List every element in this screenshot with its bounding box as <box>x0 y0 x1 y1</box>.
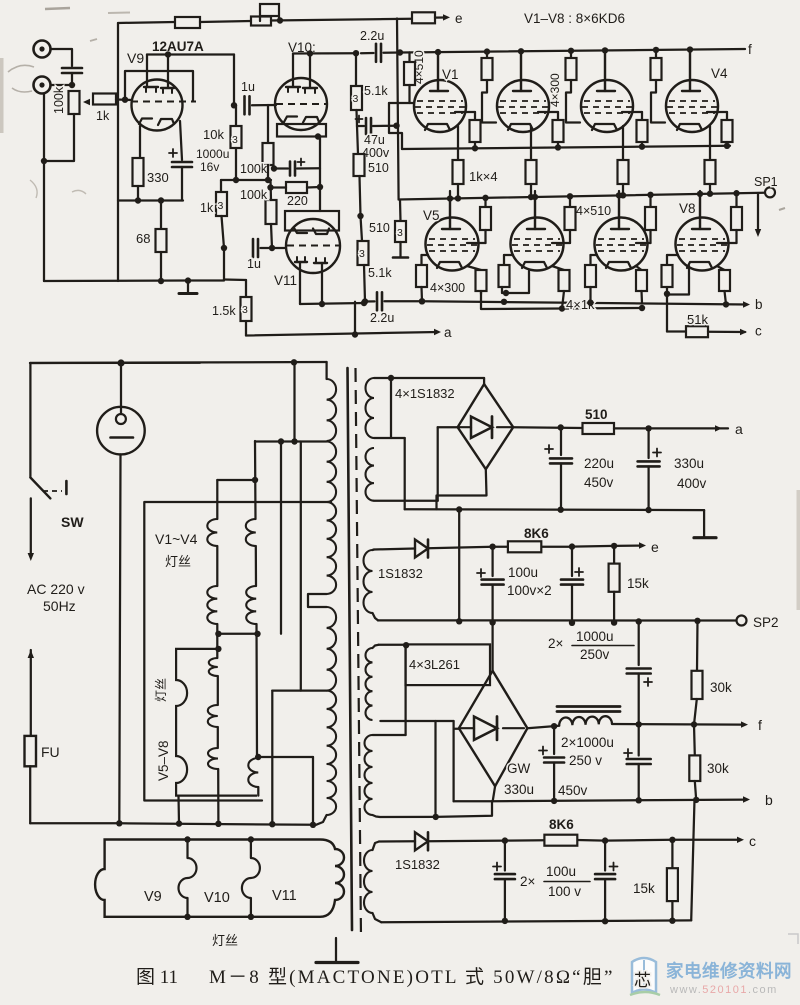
resistor 1k cathode V2 <box>526 126 537 200</box>
input jack J1 (top) <box>34 41 51 58</box>
node b (arrow) <box>743 297 763 312</box>
capacitor 220u 450v <box>545 428 572 510</box>
winding w4 <box>365 735 373 815</box>
wire b-rail left <box>385 298 426 304</box>
svg-text:4×510: 4×510 <box>576 204 611 218</box>
svg-text:SW: SW <box>61 514 84 530</box>
fuse FU <box>25 736 60 766</box>
wire bridge2 top to SP2 <box>491 623 493 671</box>
wire SP1 feedback stub <box>755 193 761 237</box>
wire heater link y634 <box>215 631 257 637</box>
svg-text:510: 510 <box>369 221 390 235</box>
tube V10 label <box>288 40 316 55</box>
label 4x300 (top, rotated) <box>548 73 562 107</box>
resistor 15k (e) <box>609 546 649 623</box>
svg-text:AC 220 v: AC 220 v <box>27 581 85 597</box>
svg-text:10k: 10k <box>203 127 224 142</box>
svg-text:f: f <box>758 717 762 733</box>
svg-text:100k: 100k <box>240 188 268 202</box>
svg-text:e: e <box>455 11 463 26</box>
svg-text:330: 330 <box>147 170 169 185</box>
tube V9 label <box>127 50 144 66</box>
svg-text:V1: V1 <box>442 67 459 82</box>
wire w3 top lead <box>373 642 410 648</box>
wire c bottom rail <box>381 918 691 925</box>
capacitor 1000u 250v (upper) <box>627 622 652 725</box>
svg-text:100k: 100k <box>240 162 268 176</box>
capacitor 1000u 16v (V9 cathode) <box>169 149 192 201</box>
label 330u 400v <box>674 456 707 491</box>
watermark text <box>666 934 798 996</box>
wire w5 top lead <box>373 841 416 850</box>
svg-text:V5: V5 <box>423 208 440 223</box>
wire w4 bottom lead <box>373 815 436 817</box>
label 4x1k <box>566 297 595 312</box>
resistor 51k <box>686 312 708 337</box>
node e (top arrow) <box>435 11 463 26</box>
svg-text:50Hz: 50Hz <box>43 598 76 614</box>
svg-text:b: b <box>755 297 763 312</box>
tube V3 <box>581 53 633 132</box>
wire divider node y180 <box>221 177 271 183</box>
capacitor input (jack1-jack2) <box>62 68 82 85</box>
wire 2.2u right to f-rail <box>384 49 404 55</box>
wire 510 to junction <box>357 176 363 219</box>
resistor cathode V7 <box>636 266 647 291</box>
resistor 100k (lower) <box>240 188 277 224</box>
wire V10 plate rail <box>293 50 359 57</box>
ground <box>179 281 197 294</box>
svg-text:2.2u: 2.2u <box>360 29 384 43</box>
resistor 15k (c) <box>633 840 678 921</box>
terminal SP1 <box>754 175 778 197</box>
node b (psu arrow) <box>743 792 773 808</box>
svg-text:f: f <box>748 42 752 57</box>
rectifier bridge 4x1S1832 <box>458 384 514 469</box>
scan artifacts (edge smudges) <box>0 8 800 610</box>
svg-text:1.5k: 1.5k <box>212 304 236 318</box>
svg-text:1k: 1k <box>200 201 214 215</box>
wire heater feed x294 <box>291 359 297 441</box>
wire w1 center tap <box>374 378 405 509</box>
wire to node c <box>708 331 745 334</box>
wire V4 plate lead <box>687 46 693 91</box>
wire a line <box>513 424 582 430</box>
wire w3/w4 link <box>404 646 406 735</box>
wire w3-w4 series link <box>433 721 439 820</box>
svg-text:4×1S1832: 4×1S1832 <box>395 386 455 401</box>
label heater (bottom) <box>212 933 238 948</box>
heater box V9 V10 V11 <box>95 840 344 917</box>
svg-text:15k: 15k <box>627 576 649 591</box>
wire V9 plate line <box>147 51 234 57</box>
tube V1 label <box>442 67 459 82</box>
wire b junction jog <box>436 801 492 817</box>
caption figure 11 <box>136 966 615 988</box>
capacitor 330u 400v <box>638 428 661 510</box>
wire w3 bottom lead <box>380 720 453 722</box>
label 12AU7A <box>152 39 204 54</box>
wire return x459 <box>458 510 460 622</box>
ground (psu A) <box>694 510 716 538</box>
resistor 30k (1) <box>692 621 733 725</box>
winding w2 <box>364 550 373 613</box>
wire V9 cathode right to bypass cap <box>180 121 182 160</box>
tube V10 <box>275 54 327 131</box>
svg-text:b: b <box>765 792 773 808</box>
capacitor 100u (c2) <box>595 841 617 922</box>
wire jack1 to coupling cap <box>51 49 73 66</box>
label 1000u 16v (V9) <box>196 147 229 174</box>
wire V5 grid-R bottom <box>419 287 425 304</box>
svg-text:30k: 30k <box>707 761 729 776</box>
svg-text:220u: 220u <box>584 456 614 471</box>
resistor 510 (driver load) <box>354 126 389 176</box>
svg-text:SP2: SP2 <box>753 615 779 630</box>
wire primary tap y690 <box>272 689 326 691</box>
svg-text:2×1000u: 2×1000u <box>561 735 614 750</box>
svg-text:100 v: 100 v <box>548 884 581 899</box>
wire V5 plate lead <box>447 195 453 229</box>
winding divider V9/V10 <box>179 836 197 920</box>
svg-text:5.1k: 5.1k <box>368 266 392 280</box>
resistor 220 <box>267 182 323 208</box>
capacitor 220-bypass with + <box>271 159 320 176</box>
resistor 5.1k 3W (lower) <box>358 216 393 280</box>
tube V4 <box>666 53 718 132</box>
wire V5 cathode to 4x1k rail <box>480 291 482 294</box>
svg-text:3: 3 <box>232 134 238 146</box>
svg-text:4×3L261: 4×3L261 <box>409 657 460 672</box>
svg-text:1000u: 1000u <box>196 147 229 161</box>
transformer primary winding <box>30 362 336 825</box>
wire input ground vertical <box>43 94 45 282</box>
choke filter <box>557 707 620 726</box>
resistor 1k cathode V4 <box>705 126 716 197</box>
wire b junction <box>454 800 493 802</box>
tube V4 label <box>711 66 728 81</box>
svg-text:V9: V9 <box>144 889 162 905</box>
wire V3 plate lead <box>602 47 608 91</box>
wire a-line <box>246 331 438 337</box>
svg-text:250v: 250v <box>580 647 610 662</box>
wire w1 top lead <box>374 375 484 381</box>
svg-text:e: e <box>651 539 659 555</box>
wire 10k bottom <box>235 148 237 180</box>
wire V8 grid bracket <box>664 266 689 297</box>
resistor screen V3 <box>622 112 648 150</box>
tube V8 <box>676 191 729 271</box>
wire 68 bottom <box>160 252 162 281</box>
wire mains left down <box>29 363 31 478</box>
svg-text:47u: 47u <box>364 133 385 147</box>
wire lamp bottom <box>119 454 120 823</box>
wire grid rail (top row) <box>402 146 730 149</box>
svg-text:15k: 15k <box>633 881 655 896</box>
tube V7 <box>595 191 648 271</box>
capacitor 2.2u (top coupling) <box>360 29 384 62</box>
svg-text:68: 68 <box>136 231 150 246</box>
diode 1S1832 (c) <box>395 832 440 872</box>
resistor screen V1 <box>455 112 481 151</box>
label 2x1000u 250v 450v <box>558 735 614 798</box>
svg-text:8K6: 8K6 <box>524 526 549 541</box>
resistor screen V8 <box>717 190 742 243</box>
capacitor 1u (to V10) <box>241 80 255 114</box>
wire V9 cathode node rail <box>118 197 183 203</box>
wire V8 cathode to b rail <box>725 291 727 304</box>
svg-text:GW: GW <box>507 761 531 776</box>
svg-text:1u: 1u <box>247 257 261 271</box>
resistor 1k cathode V1 <box>453 126 464 202</box>
resistor 510 (a supply) <box>583 407 615 434</box>
wire f line <box>612 721 741 728</box>
wire top rail to e-resistor <box>271 19 412 21</box>
label 4x300 (bottom row) <box>430 281 465 295</box>
resistor 1.5k 3W <box>212 248 252 321</box>
resistor screen V4 <box>707 112 733 149</box>
wire top rail mid <box>200 21 251 22</box>
svg-text:灯丝: 灯丝 <box>154 678 168 702</box>
resistor 30k (2) <box>689 725 729 800</box>
resistor screen V2 <box>538 112 564 151</box>
wire left feedback vertical <box>117 23 119 281</box>
resistor 4x300 (V3 grid feed) <box>566 48 581 123</box>
label 1k x4 <box>469 169 498 184</box>
resistor R-e (top) <box>412 12 435 23</box>
wire c rail up to b <box>691 800 694 921</box>
wire 5.1k to 47u node <box>355 110 358 126</box>
rectifier bridge 4x3L261 <box>459 671 528 786</box>
resistor 1k (grid stopper V9) <box>93 94 116 124</box>
winding V1-V4 heater A <box>207 477 258 658</box>
svg-text:M－8 型(MACTONE)OTL 式 50W/8Ω“胆”: M－8 型(MACTONE)OTL 式 50W/8Ω“胆” <box>209 966 615 988</box>
resistor 4x510 (V1 screen feed) <box>404 52 415 103</box>
svg-text:100v×2: 100v×2 <box>507 583 552 598</box>
label 2x 1000u/250v (upper) <box>548 629 634 662</box>
svg-text:510: 510 <box>368 161 389 175</box>
resistor 510 3W (below SP1 rail) <box>369 200 406 242</box>
wire V7 cathode to rail <box>640 291 643 303</box>
cathode box V11 <box>285 211 339 231</box>
wire V8 plate lead <box>697 191 703 229</box>
svg-text:FU: FU <box>41 744 60 760</box>
label 4x1S1832 <box>395 386 455 401</box>
svg-text:16v: 16v <box>200 160 219 174</box>
capacitor GW 330u 450v <box>539 726 564 801</box>
wire e/B+ vertical <box>393 19 399 200</box>
label AC220v 50Hz <box>27 581 85 614</box>
svg-text:250 v: 250 v <box>569 753 602 768</box>
svg-text:450v: 450v <box>584 475 614 490</box>
svg-text:V9: V9 <box>127 50 144 66</box>
resistor cathode V6 <box>552 266 570 291</box>
capacitor 47u 400v <box>356 116 397 161</box>
svg-text:4×300: 4×300 <box>548 73 562 107</box>
svg-text:3: 3 <box>242 304 248 316</box>
wire node y180 to 1k3 <box>220 180 222 192</box>
resistor grid V7 <box>585 255 597 287</box>
wire w2 bottom lead <box>373 613 379 620</box>
wire heater link y757 <box>258 756 313 758</box>
heater box V1-V4 <box>144 502 331 801</box>
wire V9 grid box <box>125 71 193 102</box>
wire 5.1k2 bottom <box>362 265 368 305</box>
wire b-rail tap vertical <box>354 302 356 335</box>
resistor link above R-top-2 <box>260 4 283 24</box>
node e (psu arrow) <box>639 539 659 555</box>
svg-text:5.1k: 5.1k <box>364 84 388 98</box>
wire V9 cathode left <box>139 126 141 158</box>
svg-text:a: a <box>444 325 452 340</box>
svg-text:V1~V4: V1~V4 <box>155 531 198 547</box>
svg-text:12AU7A: 12AU7A <box>152 39 204 54</box>
resistor 8K6 (c) <box>544 817 577 846</box>
box 4x3L261 <box>406 644 491 685</box>
resistor screen V5 <box>467 195 491 243</box>
resistor 1k 3W (V11 grid) <box>200 192 227 216</box>
svg-text:450v: 450v <box>558 783 588 798</box>
resistor cathode V5 <box>467 266 487 291</box>
wire heater feed x300 <box>300 442 302 691</box>
winding divider V10/V11 <box>242 836 260 920</box>
svg-text:51k: 51k <box>687 312 708 327</box>
svg-text:510: 510 <box>585 407 608 422</box>
svg-text:家电维修资料网: 家电维修资料网 <box>666 961 792 981</box>
tube V11 label <box>274 273 297 288</box>
svg-text:V4: V4 <box>711 66 728 81</box>
svg-text:100k: 100k <box>52 86 66 114</box>
label 2x 100u/100v <box>520 864 590 899</box>
wire primary tap jog <box>308 594 327 607</box>
wire bridge1 bottom return <box>437 469 487 509</box>
node a (psu arrow) <box>715 421 743 437</box>
node c (arrow) <box>740 324 762 339</box>
wire 510-3 end bar <box>393 242 408 258</box>
wire 2.2u left <box>361 52 374 54</box>
resistor 10k 3W <box>203 105 242 148</box>
resistor 4x300 (V4 grid feed) <box>651 47 666 123</box>
wire 1k3 to V11 grid line <box>221 216 227 251</box>
capacitor 1000u 250v (lower) <box>624 724 651 800</box>
transformer core dashed <box>356 368 362 938</box>
resistor grid V6 <box>499 255 514 287</box>
wire w4 top lead <box>373 734 406 736</box>
wire top rail left <box>118 22 175 23</box>
resistor 100k (upper) <box>240 105 274 176</box>
svg-text:1000u: 1000u <box>576 629 614 644</box>
wire bridge2 bottom <box>493 786 495 801</box>
terminal SP2 <box>737 615 779 630</box>
transformer core solid <box>348 368 353 930</box>
svg-text:220: 220 <box>287 194 308 208</box>
svg-text:1u: 1u <box>241 80 255 94</box>
resistor grid V8 <box>662 255 679 287</box>
svg-text:V10: V10 <box>204 890 230 906</box>
svg-text:8K6: 8K6 <box>549 817 574 832</box>
svg-text:400v: 400v <box>362 146 390 160</box>
heater box V5-V8 (winding edge) <box>154 646 257 796</box>
svg-text:4×300: 4×300 <box>430 281 465 295</box>
label 4x510 (top, rotated) <box>412 50 426 84</box>
resistor 4x300 (V2 grid feed) <box>482 48 497 122</box>
svg-text:芯: 芯 <box>634 971 651 990</box>
tube V11 <box>286 219 340 273</box>
wire bridge1 top <box>483 378 485 384</box>
wire heater link x313 <box>312 757 314 825</box>
winding w3 <box>366 648 373 720</box>
wire w2 top lead <box>373 549 416 551</box>
svg-text:400v: 400v <box>677 476 707 491</box>
node a (arrow) <box>434 325 452 340</box>
svg-text:www.520101.com: www.520101.com <box>669 984 778 996</box>
svg-text:100u: 100u <box>508 565 538 580</box>
wire 100k2 top <box>269 180 272 200</box>
input jack J2 (bottom) <box>34 77 51 94</box>
resistor 8K6 (e) <box>508 526 549 552</box>
svg-text:灯丝: 灯丝 <box>165 554 191 569</box>
wire b rail <box>422 299 747 308</box>
svg-text:1S1832: 1S1832 <box>395 857 440 872</box>
tube V6 <box>511 191 564 271</box>
wire w5 bottom lead <box>373 913 382 922</box>
svg-text:V8: V8 <box>679 201 696 216</box>
capacitor 1u (to V11) <box>247 239 261 271</box>
resistor 5.1k 3W (upper) <box>351 53 388 110</box>
label 4x510 (bottom row) <box>576 204 611 218</box>
svg-text:1k×4: 1k×4 <box>469 169 498 184</box>
wire V11 plate leads <box>300 262 325 307</box>
wire w1b bottom lead <box>374 427 458 501</box>
cathode box V10 <box>277 124 326 140</box>
wire below fuse <box>30 766 119 823</box>
resistor R-top-1 <box>175 17 200 28</box>
wire V2 plate lead <box>518 48 524 91</box>
potentiometer 100k <box>52 86 90 114</box>
tube V8 label <box>679 201 696 216</box>
wire 1u2 to V11 <box>261 247 287 249</box>
resistor screen V6 <box>552 193 576 243</box>
svg-text:100u: 100u <box>546 864 576 879</box>
svg-text:3: 3 <box>353 93 359 105</box>
svg-text:1k: 1k <box>96 109 110 123</box>
switch SW <box>30 478 84 531</box>
wire 1.5k bottom to a-line <box>245 321 247 336</box>
wire lamp top <box>117 359 124 414</box>
winding w1b <box>366 448 375 501</box>
tube V1 <box>414 53 466 132</box>
svg-text:V5–V8: V5–V8 <box>156 740 171 781</box>
wire V1 plate lead <box>435 49 441 91</box>
svg-text:灯丝: 灯丝 <box>212 933 238 948</box>
winding w1a <box>366 378 375 438</box>
svg-text:a: a <box>735 421 743 437</box>
wire choke line left <box>527 723 559 729</box>
watermark logo <box>630 958 660 995</box>
wire bottom ground bus <box>44 277 224 284</box>
svg-text:3: 3 <box>397 227 403 239</box>
svg-text:V11: V11 <box>272 888 297 904</box>
capacitor 100u x2 (1) <box>477 547 504 622</box>
wire SP2 rail <box>378 618 736 626</box>
wire 51k branch <box>667 295 686 332</box>
wire 1k to V9 grid <box>116 97 132 103</box>
resistor grid V5 <box>416 255 428 287</box>
wire bridge2 AC feed <box>454 721 459 801</box>
wire mains top rail <box>30 362 200 365</box>
diode 1S1832 (e) <box>378 540 428 582</box>
svg-text:1S1832: 1S1832 <box>378 566 423 581</box>
